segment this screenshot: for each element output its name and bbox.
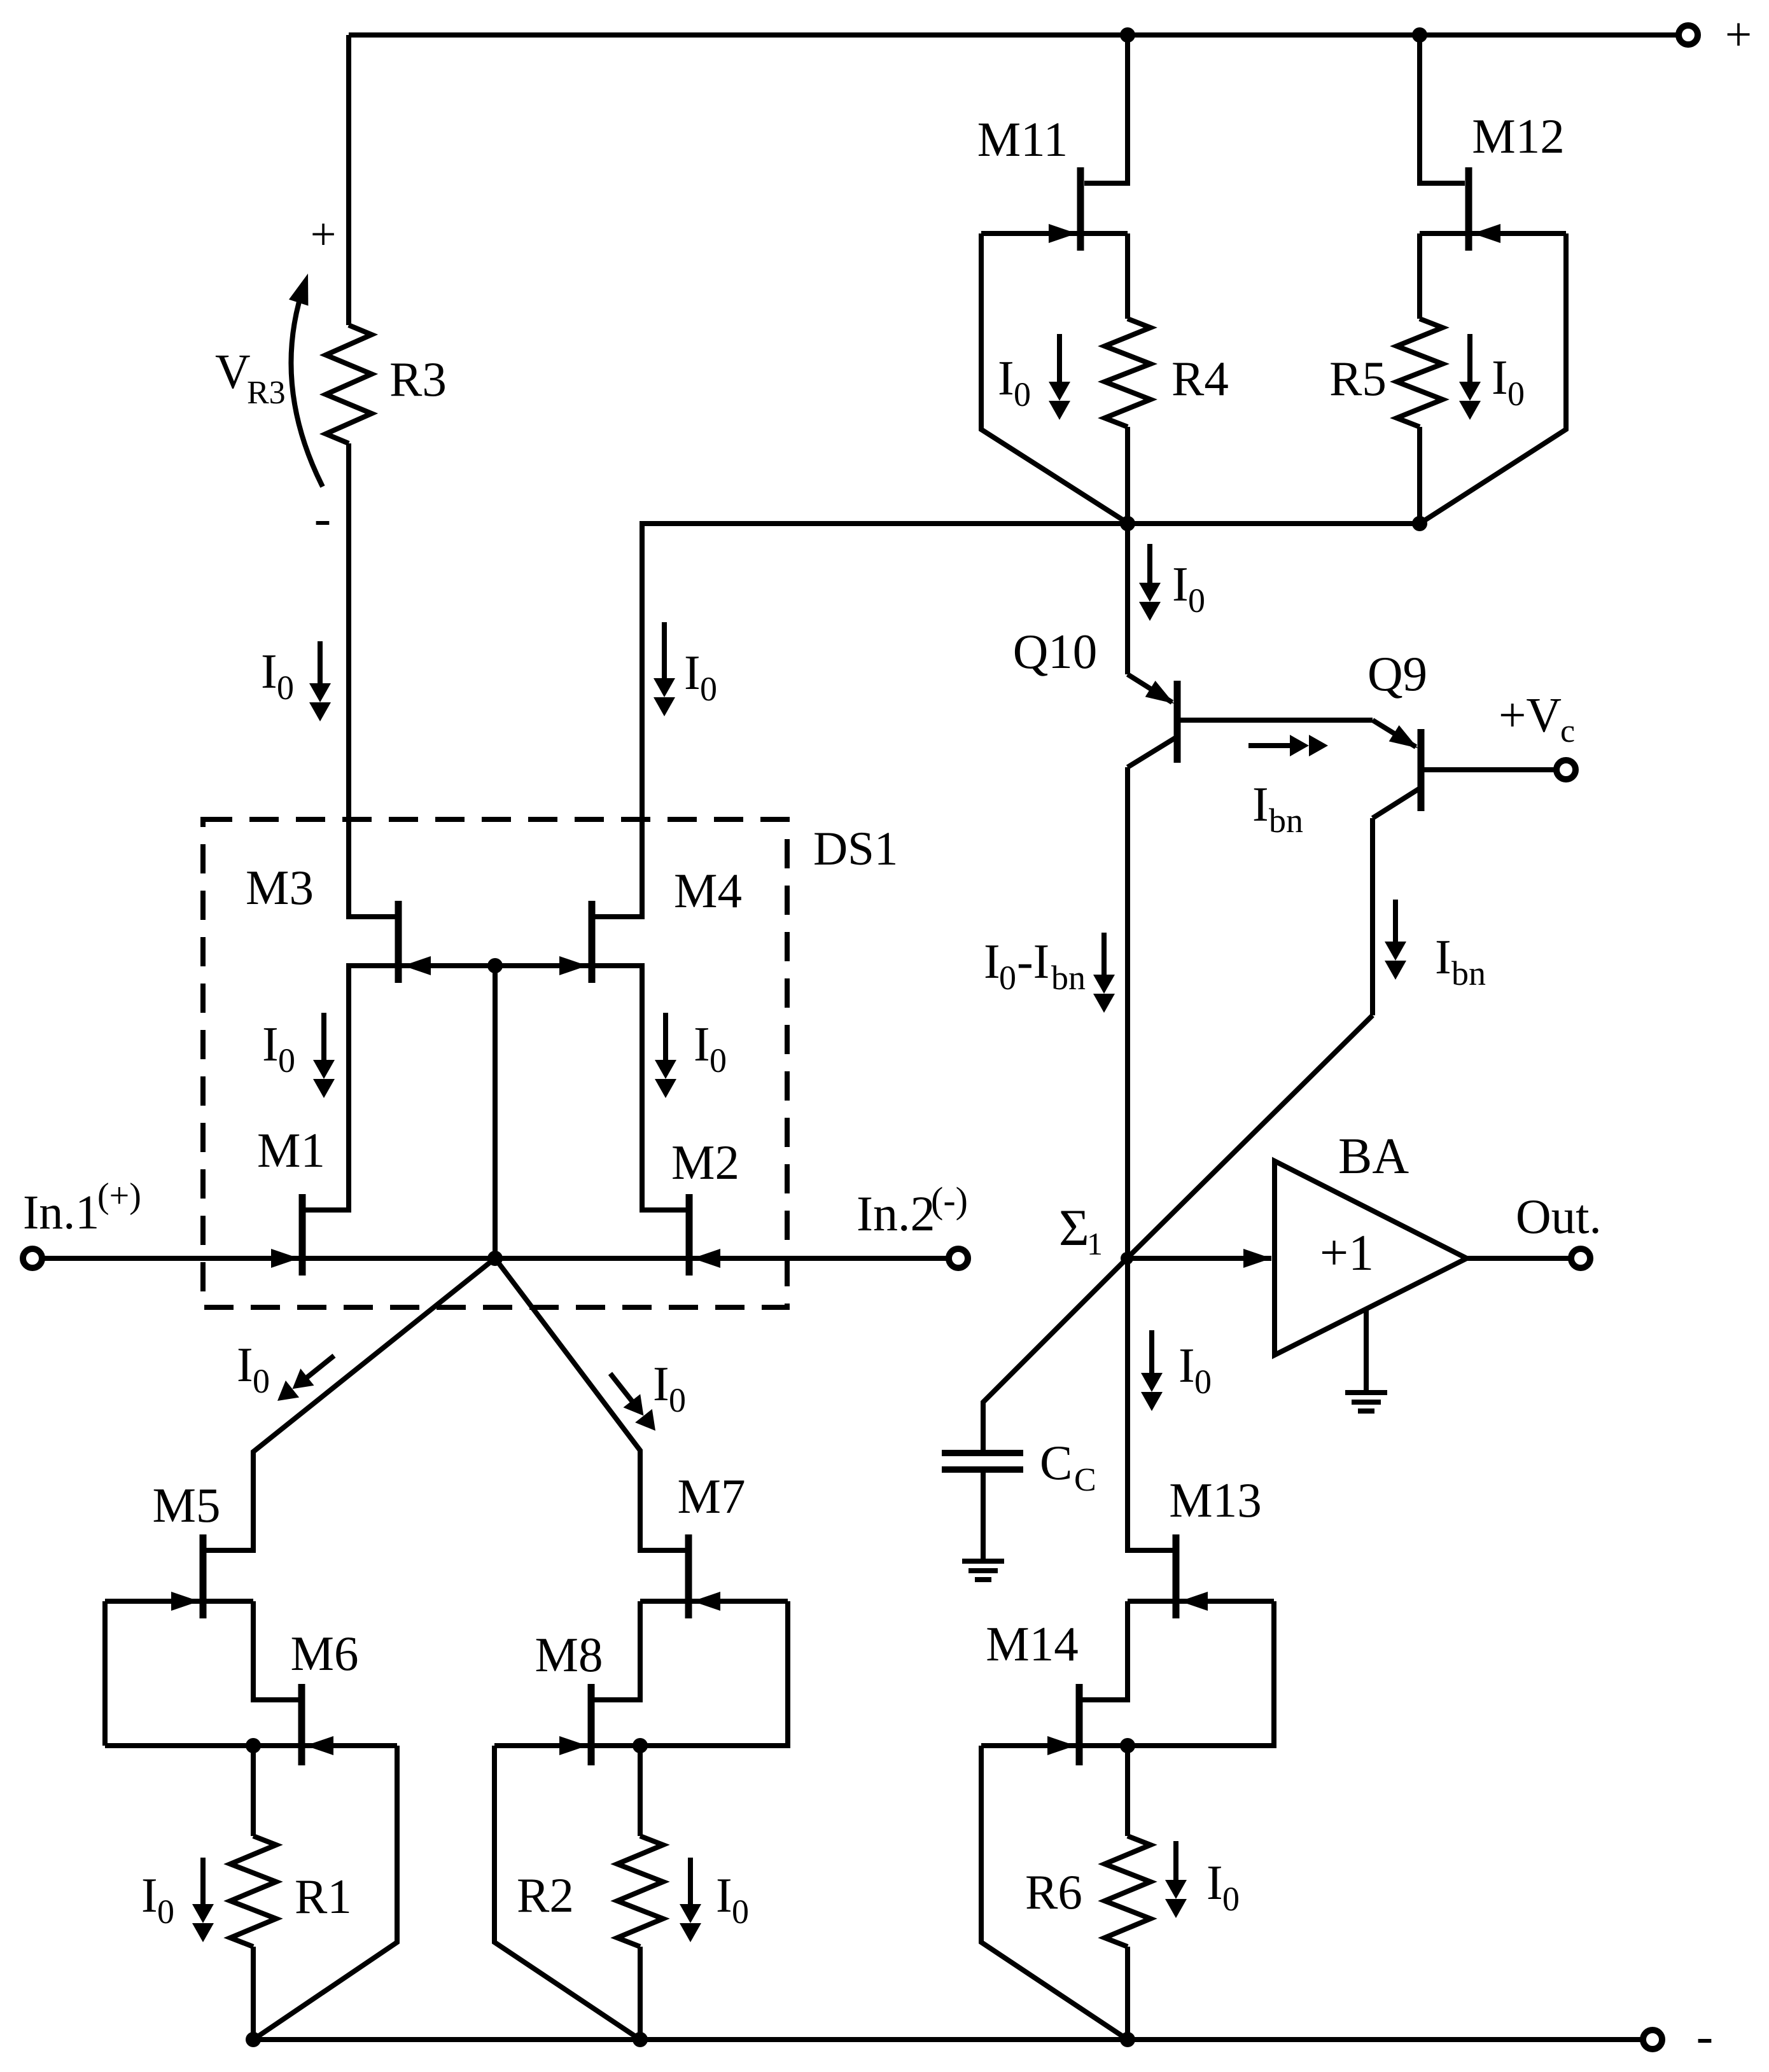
svg-text:C: C xyxy=(1074,1462,1096,1498)
wire M11 source down to R4 xyxy=(1125,233,1130,319)
wire R6 bottom to rail xyxy=(1125,1947,1130,2040)
label M13 xyxy=(1169,1473,1261,1527)
svg-text:0: 0 xyxy=(1194,1363,1212,1401)
positive supply terminal xyxy=(1679,25,1698,45)
svg-text:-: - xyxy=(314,490,332,546)
label R3 xyxy=(389,352,447,407)
label I0 (M7 feed) xyxy=(653,1356,686,1419)
label In.1(+) xyxy=(23,1176,141,1239)
transistor M4 drain wire up and across to right section xyxy=(592,524,1420,917)
svg-text:0: 0 xyxy=(710,1041,727,1080)
transistor M5 bar xyxy=(200,1534,207,1618)
svg-text:In.2: In.2 xyxy=(857,1186,935,1241)
wire M12 drain from top rail xyxy=(1420,35,1465,183)
label M3 xyxy=(246,860,314,915)
label M2 xyxy=(671,1135,739,1190)
label M6 xyxy=(291,1626,359,1681)
current arrow I0 (R2) xyxy=(680,1858,701,1942)
current arrow Ibn (Q9 collector) xyxy=(1385,900,1406,980)
wire R3 to M3 drain xyxy=(349,443,398,917)
svg-text:R4: R4 xyxy=(1171,351,1229,406)
label Q10 xyxy=(1013,624,1098,679)
current arrow I0 (Q10 emitter) xyxy=(1139,544,1161,621)
transistor M4 source wire down to M2 drain xyxy=(592,966,689,1210)
svg-text:I: I xyxy=(237,1337,253,1392)
label Out. xyxy=(1516,1189,1602,1244)
label R1 xyxy=(295,1869,352,1924)
svg-text:M3: M3 xyxy=(246,860,314,915)
svg-text:+: + xyxy=(1725,8,1752,61)
label I0 (R2) xyxy=(716,1868,749,1931)
junction dot M3/M4 gate node xyxy=(487,958,503,973)
svg-text:R3: R3 xyxy=(247,375,286,411)
buffer ground stem xyxy=(1364,1310,1369,1393)
junction dot node R5 xyxy=(1412,516,1427,531)
current arrow I0 (below summing node) xyxy=(1141,1330,1163,1411)
label V_R3 xyxy=(215,344,286,411)
label I0 (M2 branch) xyxy=(694,1017,727,1080)
wire R1 bottom to rail xyxy=(251,1947,256,2040)
junction dot top rail / M12 drain xyxy=(1412,27,1427,43)
svg-text:+: + xyxy=(311,209,337,260)
svg-text:0: 0 xyxy=(700,670,717,708)
transistor M4 bar xyxy=(589,901,596,983)
svg-text:I: I xyxy=(684,645,701,700)
transistor M7 source/gate row with arrow xyxy=(640,1592,788,1611)
svg-text:bn: bn xyxy=(1269,802,1303,840)
transistor M13 bar xyxy=(1173,1534,1180,1618)
wire M5 source down to M6 drain xyxy=(253,1601,302,1700)
junction dot bottom rail R6 xyxy=(1120,2032,1135,2047)
svg-text:DS1: DS1 xyxy=(813,823,898,875)
svg-text:c: c xyxy=(1560,713,1575,749)
label I0 (Q10 emitter) xyxy=(1172,557,1205,620)
current arrow I0 (R5) xyxy=(1459,334,1481,420)
wire In.1 to common source with arrow into M1 xyxy=(43,1249,495,1268)
resistor R4 xyxy=(1105,319,1150,427)
transistor M6 source/gate row with arrow xyxy=(105,1736,397,1755)
label sigma1 summing node xyxy=(1059,1199,1103,1262)
label I0 (R5) xyxy=(1492,350,1525,413)
label I0 (M4 drain wire) xyxy=(684,645,717,708)
svg-text:I: I xyxy=(261,644,277,699)
transistor M6 bar xyxy=(298,1684,305,1765)
label M8 xyxy=(535,1627,603,1682)
svg-text:In.1: In.1 xyxy=(23,1186,99,1239)
junction dot M8 source / R2 top xyxy=(633,1738,648,1753)
svg-text:M2: M2 xyxy=(671,1135,739,1190)
transistor M7 bar xyxy=(685,1534,692,1618)
wire M13 gate loop down xyxy=(1128,1601,1274,1746)
current arrow I0 (M7 feed) xyxy=(610,1373,655,1431)
transistor M5 gate/source row with arrow xyxy=(105,1592,253,1611)
transistor M8 bar xyxy=(588,1684,595,1765)
junction dot bottom rail R2 xyxy=(633,2032,648,2047)
transistor M8 gate/source row with arrow xyxy=(494,1736,640,1755)
label +1 (buffer gain) xyxy=(1320,1225,1374,1281)
svg-text:I: I xyxy=(141,1868,158,1923)
junction dot bottom rail R1 xyxy=(246,2032,261,2047)
svg-text:0: 0 xyxy=(732,1893,749,1931)
resistor R6 xyxy=(1105,1836,1150,1947)
transistor Q9 emitter wire with arrow xyxy=(1373,720,1418,748)
label + (R3 top) xyxy=(311,209,337,260)
current arrow I0 (R3 branch) xyxy=(309,641,331,721)
current arrow I0 (M4 drain wire) xyxy=(654,622,675,716)
svg-text:I: I xyxy=(984,934,1000,989)
transistor M2 bar xyxy=(686,1194,693,1276)
negative supply terminal xyxy=(1643,2030,1662,2049)
svg-text:0: 0 xyxy=(1188,581,1205,620)
wire M6 gate loop to bottom rail xyxy=(253,1746,397,2040)
svg-text:-I: -I xyxy=(1017,934,1049,989)
wire Q10 collector down to M13 drain xyxy=(1128,767,1173,1550)
svg-text:V: V xyxy=(215,344,251,399)
wire R2 bottom to rail xyxy=(638,1947,643,2040)
negative supply rail wire xyxy=(253,2037,1642,2042)
transistor M3 bar xyxy=(395,901,402,983)
wire M8 gate loop to bottom rail xyxy=(494,1746,640,2040)
wire common source to M5 drain xyxy=(206,1258,495,1550)
capacitor Cc bottom plate xyxy=(942,1466,1023,1473)
svg-text:M7: M7 xyxy=(678,1469,746,1524)
svg-text:0: 0 xyxy=(157,1893,174,1931)
label I0 (R4) xyxy=(998,351,1031,414)
output terminal Out xyxy=(1571,1249,1590,1268)
wire node to Q10 emitter xyxy=(1125,524,1130,674)
svg-text:I: I xyxy=(1172,557,1189,611)
transistor M11 bar xyxy=(1077,167,1084,251)
label M1 xyxy=(257,1123,325,1178)
current arrow I0 (M5 feed) xyxy=(277,1356,334,1401)
buffer amplifier BA triangle xyxy=(1275,1161,1467,1355)
svg-text:M12: M12 xyxy=(1472,109,1564,163)
label R4 xyxy=(1171,351,1229,406)
wire M11 gate loop to node xyxy=(981,233,1128,523)
current arrow I0 (M1 branch) xyxy=(313,1013,335,1098)
transistor M12 bar xyxy=(1465,167,1472,251)
svg-text:M14: M14 xyxy=(986,1617,1078,1671)
junction dot M6 source / R1 top xyxy=(246,1738,261,1753)
label M11 xyxy=(977,112,1068,167)
wire M13 source down to M14 drain xyxy=(1082,1601,1128,1700)
svg-text:Σ: Σ xyxy=(1059,1199,1089,1256)
input terminal In.1 xyxy=(23,1249,42,1268)
resistor R3 xyxy=(326,325,372,443)
voltage arc V_R3 xyxy=(289,274,323,487)
label M12 xyxy=(1472,109,1564,163)
svg-text:I: I xyxy=(998,351,1014,405)
svg-text:0: 0 xyxy=(278,1041,295,1080)
svg-text:Q10: Q10 xyxy=(1013,624,1098,679)
label R6 xyxy=(1025,1865,1082,1919)
capacitor Cc top plate xyxy=(942,1450,1023,1456)
wire Q9 collector diagonal to summing node xyxy=(1127,1015,1373,1258)
transistor M3 gate wire with arrow xyxy=(402,956,495,975)
current arrow I0-Ibn xyxy=(1093,933,1115,1013)
junction dot node R4 xyxy=(1120,516,1135,531)
resistor R2 xyxy=(617,1836,663,1947)
transistor Q9 collector wire xyxy=(1373,788,1421,818)
wire R4 bottom to node xyxy=(1125,427,1130,524)
label - (R3 bottom) xyxy=(314,490,332,546)
transistor M3 source wire down to M1 drain xyxy=(302,966,398,1210)
wire M7 source down to M8 drain xyxy=(591,1601,640,1700)
svg-text:M11: M11 xyxy=(977,112,1068,167)
wire M12 gate loop to node xyxy=(1420,233,1566,524)
label I0 (R6) xyxy=(1206,1855,1240,1918)
wire R6 top xyxy=(1125,1746,1130,1836)
wire summing node to buffer with arrow xyxy=(1127,1249,1271,1268)
current arrow I0 (M2 branch) xyxy=(655,1013,676,1098)
svg-text:I: I xyxy=(716,1868,732,1923)
svg-text:BA: BA xyxy=(1338,1129,1409,1185)
wire summing node to Cc xyxy=(983,1258,1127,1453)
wire M14 gate loop to bottom rail xyxy=(981,1746,1128,2040)
svg-text:I: I xyxy=(1492,350,1508,405)
svg-text:I: I xyxy=(694,1017,710,1071)
svg-text:R2: R2 xyxy=(517,1868,574,1923)
svg-text:M4: M4 xyxy=(674,863,742,918)
label M7 xyxy=(678,1469,746,1524)
wire common source to M7 drain xyxy=(495,1258,685,1550)
svg-text:I: I xyxy=(653,1356,669,1411)
svg-text:0: 0 xyxy=(1507,375,1525,413)
label + (positive rail) xyxy=(1725,8,1752,61)
transistor M14 bar xyxy=(1076,1684,1083,1765)
svg-text:0: 0 xyxy=(253,1362,270,1400)
svg-text:-: - xyxy=(1696,2008,1714,2064)
resistor R5 xyxy=(1397,319,1443,427)
label - (negative rail) xyxy=(1696,2008,1714,2064)
wire top rail to R3 xyxy=(346,35,351,325)
junction dot M14 source / R6 top xyxy=(1120,1738,1135,1753)
transistor Q10 collector wire xyxy=(1128,737,1177,767)
svg-text:0: 0 xyxy=(999,959,1016,997)
svg-text:0: 0 xyxy=(1014,375,1031,414)
label Q9 xyxy=(1367,646,1427,701)
svg-text:M1: M1 xyxy=(257,1123,325,1178)
wire M11 drain from top rail xyxy=(1084,35,1128,183)
svg-text:I: I xyxy=(1435,929,1451,984)
svg-text:I: I xyxy=(1252,777,1269,831)
label BA xyxy=(1338,1129,1409,1185)
label Ibn (base) xyxy=(1252,777,1303,840)
svg-text:M6: M6 xyxy=(291,1626,359,1681)
transistor M12 gate/source row with arrow xyxy=(1420,224,1566,243)
label M14 xyxy=(986,1617,1078,1671)
svg-text:0: 0 xyxy=(277,669,294,707)
wire M7 gate loop down xyxy=(640,1601,788,1746)
current arrow I0 (R6) xyxy=(1165,1841,1187,1918)
label M5 xyxy=(153,1478,221,1533)
transistor M13 source/gate row with arrow xyxy=(1128,1592,1274,1611)
label I0 (M1 branch) xyxy=(262,1017,295,1080)
current arrow I0 (R4) xyxy=(1049,334,1070,420)
svg-text:0: 0 xyxy=(1222,1880,1240,1918)
svg-text:+1: +1 xyxy=(1320,1225,1374,1281)
svg-text:+V: +V xyxy=(1499,688,1562,742)
input terminal In.2 xyxy=(949,1249,968,1268)
svg-text:R5: R5 xyxy=(1329,351,1387,406)
svg-text:I: I xyxy=(1178,1338,1195,1393)
label I0 (R3 branch) xyxy=(261,644,294,707)
svg-text:R1: R1 xyxy=(295,1869,352,1924)
wire center vertical gate-to-source xyxy=(493,966,498,1258)
svg-text:1: 1 xyxy=(1087,1226,1103,1262)
resistor R1 xyxy=(230,1836,276,1947)
svg-text:I: I xyxy=(262,1017,279,1071)
wire M5 gate loop down xyxy=(102,1601,108,1746)
wire Cc to ground xyxy=(981,1470,986,1561)
label I0 (below summing node) xyxy=(1178,1338,1212,1401)
svg-text:Out.: Out. xyxy=(1516,1189,1602,1244)
transistor M1 bar xyxy=(299,1194,306,1276)
transistor Q9 bar xyxy=(1418,729,1425,811)
label R2 xyxy=(517,1868,574,1923)
junction dot summing node sigma1 xyxy=(1121,1252,1133,1265)
svg-text:M8: M8 xyxy=(535,1627,603,1682)
transistor Q10 base wire xyxy=(1177,718,1373,723)
junction dot common source node xyxy=(487,1251,503,1266)
label R5 xyxy=(1329,351,1387,406)
label Cc xyxy=(1040,1435,1096,1498)
positive supply rail wire xyxy=(349,32,1677,38)
transistor Q9 base wire to terminal xyxy=(1421,767,1555,772)
transistor M4 gate wire with arrow xyxy=(495,956,589,975)
label M4 xyxy=(674,863,742,918)
svg-text:Q9: Q9 xyxy=(1367,646,1427,701)
transistor Q10 emitter wire with arrow xyxy=(1128,674,1174,704)
label DS1 xyxy=(813,823,898,875)
svg-text:bn: bn xyxy=(1051,959,1086,997)
dashed box DS1 xyxy=(203,819,787,1307)
transistor M14 gate/source row with arrow xyxy=(981,1736,1128,1755)
wire R1 top xyxy=(251,1746,256,1836)
wire Q9 collector down xyxy=(1370,818,1375,1015)
svg-text:bn: bn xyxy=(1451,954,1486,992)
svg-text:R3: R3 xyxy=(389,352,447,407)
junction dot top rail / M11 drain xyxy=(1120,27,1135,43)
label +Vc xyxy=(1499,688,1575,749)
svg-text:(-): (-) xyxy=(931,1179,968,1221)
terminal +Vc xyxy=(1556,760,1576,779)
current arrow Ibn (base) xyxy=(1248,735,1328,756)
current arrow I0 (R1) xyxy=(192,1858,214,1942)
svg-text:M5: M5 xyxy=(153,1478,221,1533)
transistor Q10 bar xyxy=(1174,681,1181,763)
label Ibn (Q9 collector) xyxy=(1435,929,1486,992)
svg-text:I: I xyxy=(1206,1855,1223,1910)
wire R2 top xyxy=(638,1746,643,1836)
label I0 (R1) xyxy=(141,1868,174,1931)
svg-text:(+): (+) xyxy=(97,1176,141,1216)
wire buffer output xyxy=(1467,1256,1570,1261)
wire R5 bottom to node xyxy=(1417,427,1422,524)
label I0-Ibn xyxy=(984,934,1086,997)
svg-text:C: C xyxy=(1040,1435,1072,1490)
label I0 (M5 feed) xyxy=(237,1337,270,1400)
svg-text:0: 0 xyxy=(669,1381,686,1419)
ground symbol (buffer) xyxy=(1345,1393,1387,1411)
ground symbol (Cc) xyxy=(962,1561,1004,1580)
wire In.2 to common source with arrow into M2 xyxy=(495,1249,947,1268)
wire M12 source down to R5 xyxy=(1417,233,1422,319)
svg-text:R6: R6 xyxy=(1025,1865,1082,1919)
transistor M11 gate/source row with arrow xyxy=(981,224,1128,243)
label In.2(-) xyxy=(857,1179,968,1241)
svg-text:M13: M13 xyxy=(1169,1473,1261,1527)
